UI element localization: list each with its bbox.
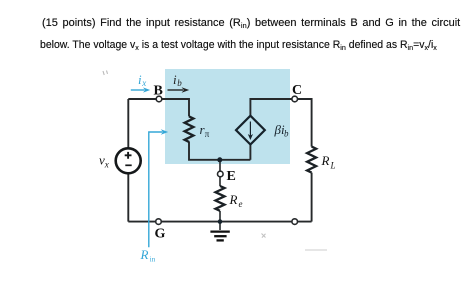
wire: bottom rail G to right: [128, 221, 311, 223]
svg-text:b: b: [284, 129, 289, 139]
voltage source vx: [116, 148, 141, 173]
svg-text:B: B: [154, 84, 163, 99]
svg-text:C: C: [292, 83, 302, 98]
svg-text:G: G: [155, 227, 166, 242]
svg-text:π: π: [205, 129, 210, 139]
svg-text:x: x: [104, 160, 109, 170]
R_in indicator line with arrow (cyan): [149, 132, 163, 247]
svg-text:E: E: [227, 169, 236, 184]
junction dot at interior bottom node: [217, 157, 222, 162]
resistor r_pi: [185, 116, 194, 142]
svg-text:b: b: [177, 78, 182, 88]
terminal G: [156, 219, 162, 225]
wire: dependent source top to C and R_L top: [250, 99, 311, 147]
svg-text:R: R: [140, 247, 149, 262]
current arrow i_x (cyan): [131, 89, 145, 91]
dependent source internal arrow: [249, 122, 251, 136]
vx minus sign: [125, 164, 131, 166]
terminal C: [292, 96, 298, 102]
svg-text:R: R: [229, 192, 238, 207]
stray scan mark near top of box: [103, 71, 108, 76]
svg-text:R: R: [321, 153, 330, 168]
wire: R_L bottom to bottom rail: [311, 173, 313, 222]
terminal E: [218, 171, 224, 177]
wire: r_pi bottom to interior bottom node: [189, 142, 250, 160]
terminal on bottom rail right: [292, 219, 298, 225]
terminal B: [156, 96, 162, 102]
wire: left branch vx top segment (B node to source): [127, 99, 129, 148]
svg-text:e: e: [239, 199, 243, 209]
svg-text:x: x: [141, 78, 146, 88]
svg-text:L: L: [330, 161, 336, 171]
vx plus sign: [125, 152, 132, 159]
dependent current source beta*i_b (diamond): [236, 116, 265, 145]
resistor R_L: [307, 147, 316, 173]
ground symbol: [219, 222, 221, 230]
wire: dependent source bottom stub: [249, 145, 251, 160]
wire: left branch vx bottom segment (source to bottom rail): [127, 173, 129, 221]
problem statement line 1: [42, 17, 460, 29]
current arrow i_b (black): [168, 89, 184, 91]
highlight box (small-signal model region): [165, 69, 290, 164]
wire: E stub from interior node to R_e: [219, 160, 221, 186]
wire: top-left from left branch through B to r_pi: [128, 99, 189, 116]
wire: R_e bottom to ground node: [219, 211, 221, 222]
problem statement line 2: [40, 39, 437, 51]
resistor R_e: [216, 186, 225, 211]
junction dot at ground node: [218, 219, 223, 224]
stray scan marks bottom: [262, 234, 266, 238]
svg-text:in: in: [150, 256, 156, 264]
